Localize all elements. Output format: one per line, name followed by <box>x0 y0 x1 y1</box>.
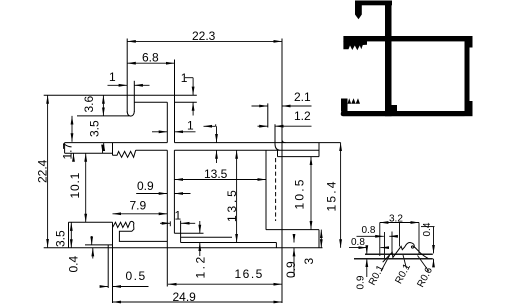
bar top line A right part + 15.4 ext <box>175 142 341 144</box>
svg-text:3.5: 3.5 <box>54 230 68 247</box>
dim 6.8 <box>127 62 174 64</box>
svg-text:3.5: 3.5 <box>88 120 102 137</box>
dim 13.5 horizontal <box>174 179 266 181</box>
dim 2.1 <box>252 105 268 107</box>
svg-text:1.2: 1.2 <box>194 254 208 278</box>
lower-left block top T5 <box>69 221 113 223</box>
profile bottom edge T6 full <box>44 247 323 249</box>
svg-text:16.5: 16.5 <box>235 267 264 281</box>
dim 0.9 wall arrows <box>136 193 167 195</box>
svg-text:10.1: 10.1 <box>68 172 82 199</box>
lower-left block left edge <box>68 222 70 248</box>
channel bottom tab right edge <box>318 230 320 248</box>
svg-text:10.5: 10.5 <box>293 177 307 209</box>
R leaders <box>381 256 390 272</box>
notch top line <box>85 244 113 246</box>
svg-text:0.9: 0.9 <box>137 179 154 193</box>
dim 10.5 <box>310 157 312 230</box>
svg-text:15.4: 15.4 <box>325 179 339 211</box>
dim 1 wall arrows <box>152 131 167 133</box>
dim 15.4 <box>340 143 342 248</box>
svg-text:22.4: 22.4 <box>36 159 50 183</box>
dim 1 hook wall arrows <box>108 84 128 86</box>
serrated block below-left <box>343 41 367 50</box>
central wall right edge above bar + 6.8 ext <box>174 60 176 143</box>
svg-text:0.9: 0.9 <box>356 275 367 289</box>
bottom-left upstand <box>341 99 348 112</box>
svg-text:0.5: 0.5 <box>126 269 147 283</box>
step block right of central bar <box>392 105 398 112</box>
central vertical bar <box>385 1 392 117</box>
upstand teeth <box>348 98 361 104</box>
detail teeth <box>383 243 429 263</box>
dim 24.9 <box>113 301 283 303</box>
profile right edge (bar end + tab) <box>318 143 320 157</box>
mid serration teeth (pointing down) <box>113 150 136 157</box>
svg-text:2.1: 2.1 <box>294 90 311 104</box>
top bar top edge long line (22.4 ext + profile top + ext) <box>44 94 197 96</box>
dim 1.2 top <box>258 125 268 127</box>
middle bar <box>343 36 472 41</box>
dim 3.5 lower <box>70 222 72 248</box>
dim 3.6 <box>102 95 104 116</box>
svg-text:7.9: 7.9 <box>130 199 147 213</box>
dim 22.4 <box>47 95 49 247</box>
central wall left edge above bar <box>166 102 168 142</box>
dim 1.7 arrows <box>73 153 75 160</box>
ext verticals <box>379 223 381 257</box>
hook outer edge vertical + 22.3/6.8 extension <box>126 39 128 113</box>
box inner floor line <box>181 236 232 238</box>
notch vertical + ext down <box>107 245 109 288</box>
svg-text:1.7: 1.7 <box>61 142 75 159</box>
top bar bottom edge left segment <box>134 101 167 103</box>
svg-text:0.8: 0.8 <box>362 225 376 236</box>
dim 1 top bar thickness bent leader + arrows <box>185 77 193 79</box>
flange right rounded corner into A <box>282 140 286 143</box>
dim 1.2 bottom arrows <box>199 221 201 233</box>
channel bottom tab top line <box>266 229 319 231</box>
svg-text:1: 1 <box>175 209 182 223</box>
box outer floor line <box>181 242 277 244</box>
dim 3 <box>320 230 322 248</box>
right channel bottom tab <box>465 101 473 116</box>
bar bottom line B left segment <box>136 149 168 151</box>
svg-text:1: 1 <box>109 70 116 84</box>
hook inner vertical + 1mm dim extension <box>133 81 135 112</box>
dim 22.3 <box>127 40 282 42</box>
dim 0.4 arrows <box>91 236 93 245</box>
hidden dashed line <box>275 158 277 221</box>
svg-text:0.4: 0.4 <box>67 255 81 272</box>
svg-text:0.9: 0.9 <box>284 261 298 278</box>
dim 0.5 <box>101 286 109 288</box>
bar bottom line B right segment (box top + right) <box>174 149 319 151</box>
dim 1 box lip arrows <box>160 222 170 224</box>
up arrow onto A at x=103.7 <box>103 143 105 150</box>
svg-text:1: 1 <box>187 119 194 133</box>
box lip vertical <box>180 221 182 243</box>
dim 0.4 right <box>421 226 435 228</box>
svg-text:1.2: 1.2 <box>294 109 311 123</box>
dim 0.9 left arrows <box>366 248 368 254</box>
dim 13.5 vertical <box>236 150 238 242</box>
dim 3.5 upper <box>71 116 73 142</box>
left ear bottom line T2 <box>77 115 130 117</box>
svg-text:0.8: 0.8 <box>351 237 365 248</box>
box right ext line up <box>267 103 269 127</box>
top bar <box>355 1 392 6</box>
bottom bar <box>341 111 465 116</box>
dim 16.5 <box>168 283 282 285</box>
mid serration step vertical <box>112 143 114 156</box>
top bar bottom edge right ext segment <box>175 101 197 103</box>
box right edge <box>265 150 267 230</box>
hook rounded tip <box>127 112 134 117</box>
svg-text:13.5: 13.5 <box>204 167 228 181</box>
central wall right edge below bar = box left edge <box>173 150 175 233</box>
stray down arrow onto T4 <box>102 146 104 154</box>
svg-text:1: 1 <box>181 71 188 85</box>
right channel vertical <box>465 48 470 102</box>
svg-text:3.6: 3.6 <box>82 95 96 112</box>
central wall left edge below bar + ext down <box>166 150 168 286</box>
dim 7.9 <box>113 213 168 215</box>
floor step down vertical <box>275 243 277 248</box>
lower-left block right edge + ext down <box>112 222 114 303</box>
channel top tab left edge <box>277 150 279 156</box>
dim 0.8 #2 <box>349 247 367 249</box>
strip lower line <box>354 258 433 260</box>
left mid block bottom T4 <box>65 152 113 154</box>
svg-text:6.8: 6.8 <box>142 51 159 65</box>
left mid block left face <box>64 143 66 154</box>
right flange left edge <box>274 124 276 144</box>
lower serration teeth (pointing up) + hook tooth <box>113 221 168 241</box>
svg-text:24.9: 24.9 <box>173 290 197 304</box>
channel top tab bottom line <box>278 156 320 158</box>
long right vertical (22.3 ext + flange right + 24.9 ext) <box>281 39 283 304</box>
dim 0.8 #1 <box>357 235 384 237</box>
bent leader 1 (bar thickness) <box>204 125 216 127</box>
svg-text:3: 3 <box>302 258 316 265</box>
box bottom lip jog line + ext <box>174 232 203 234</box>
bar top line A left part <box>65 142 168 144</box>
svg-text:3.2: 3.2 <box>389 214 403 225</box>
svg-text:0.4: 0.4 <box>422 222 433 236</box>
dim 10.1 <box>85 153 87 222</box>
dim 3.2 <box>380 222 419 224</box>
right channel top tab <box>465 36 473 48</box>
svg-text:13.5: 13.5 <box>225 187 239 222</box>
svg-text:22.3: 22.3 <box>192 29 216 43</box>
dim 0.9 bottom-right arrows <box>293 235 295 243</box>
flange left to B rounded transition <box>275 144 280 150</box>
strip upper line <box>365 253 433 255</box>
left hook <box>355 1 362 20</box>
